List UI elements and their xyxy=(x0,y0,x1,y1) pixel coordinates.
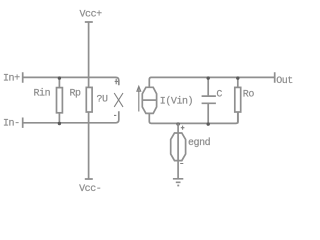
svg-text:Vcc-: Vcc- xyxy=(79,184,101,195)
svg-text:Ro: Ro xyxy=(243,89,255,100)
svg-text:I(Vin): I(Vin) xyxy=(160,96,193,108)
svg-text:Vcc+: Vcc+ xyxy=(80,10,103,21)
svg-text:Rp: Rp xyxy=(70,89,82,100)
svg-text:In-: In- xyxy=(3,118,20,129)
svg-text:egnd: egnd xyxy=(188,137,211,149)
svg-text:In+: In+ xyxy=(3,73,20,84)
svg-text:Out: Out xyxy=(276,76,293,87)
svg-text:Rin: Rin xyxy=(34,88,51,100)
svg-text:?U: ?U xyxy=(97,94,109,105)
svg-text:C: C xyxy=(216,90,222,101)
